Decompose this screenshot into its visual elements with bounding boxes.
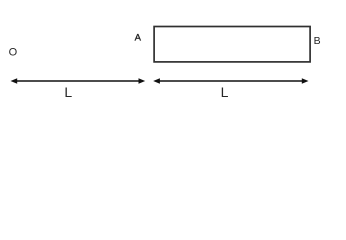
svg-text:O: O bbox=[9, 46, 18, 58]
svg-text:A: A bbox=[135, 33, 142, 44]
svg-text:B: B bbox=[314, 35, 321, 47]
svg-text:L: L bbox=[221, 84, 229, 100]
svg-text:L: L bbox=[64, 84, 72, 100]
